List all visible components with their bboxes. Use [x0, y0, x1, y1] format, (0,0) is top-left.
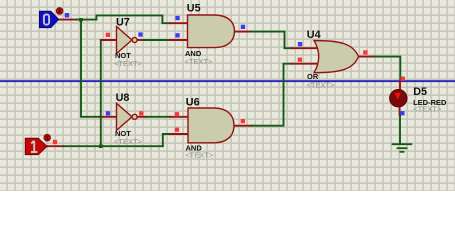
wire U4 out to LED: [375, 57, 401, 81]
U8 output pin stub: [137, 116, 146, 118]
U6 bottom input state marker (red): [175, 128, 179, 132]
D5 cathode state marker (blue): [400, 111, 404, 115]
svg-text:U5: U5: [187, 3, 201, 15]
U7 input pin stub: [101, 39, 117, 41]
U4 top input pin stub: [292, 47, 318, 49]
and gate U5: [188, 15, 235, 48]
wire LED to ground: [399, 115, 401, 145]
svg-text:<TEXT>: <TEXT>: [114, 59, 143, 68]
wire U6 out to U4 bottom input: [252, 64, 293, 126]
logic 1 pin state marker (red square): [53, 140, 57, 144]
not gate U8: [117, 103, 138, 130]
and gate U6: [188, 108, 234, 143]
wire A branch down to U8 input: [81, 20, 100, 117]
wire B horizontal: [63, 145, 163, 147]
wire U5 out to U4 top input: [252, 32, 293, 49]
svg-text:U8: U8: [116, 92, 130, 104]
logic 1 toggle red circle: [44, 134, 51, 141]
wire U7 out to U5 bottom input: [144, 39, 171, 41]
LED anode pin stub: [399, 81, 401, 91]
logic state input 0: [40, 11, 59, 27]
wire U8 out to U6 top input: [146, 116, 170, 118]
svg-text:<TEXT>: <TEXT>: [114, 137, 143, 146]
U8 input state marker (blue): [106, 111, 110, 115]
blue sheet border line: [0, 80, 455, 82]
node B junction: [99, 145, 103, 149]
U8 input pin stub: [100, 116, 117, 118]
not gate U7: [117, 27, 138, 54]
U7 output state marker (blue): [138, 32, 142, 36]
U7 input state marker (red): [106, 33, 110, 37]
U5 output state marker (blue): [241, 25, 245, 29]
U7 output pin stub: [137, 39, 144, 41]
wire B up to U6 bottom input: [163, 134, 171, 146]
svg-text:<TEXT>: <TEXT>: [185, 57, 214, 66]
U6 output state marker (red): [241, 119, 245, 123]
U5 top input pin stub: [170, 22, 188, 24]
U8 output state marker (red): [139, 111, 143, 115]
svg-text:<TEXT>: <TEXT>: [413, 105, 442, 114]
wire B branch up to U7 input: [100, 40, 102, 146]
U6 bottom input pin stub: [171, 133, 188, 135]
U4 bottom input state marker (red): [298, 58, 302, 62]
node A junction: [79, 18, 83, 22]
logic state input 1: [25, 138, 47, 154]
U4 output state marker (red): [363, 50, 367, 54]
D5 anode state marker (red): [401, 77, 405, 81]
logic 0 toggle red circle: [56, 8, 63, 15]
ground: [392, 144, 413, 152]
svg-text:D5: D5: [413, 86, 427, 98]
U6 top input pin stub: [170, 116, 188, 118]
svg-text:U6: U6: [186, 97, 200, 109]
U4 output pin stub: [358, 56, 375, 58]
U5 output pin stub: [234, 31, 252, 33]
svg-text:<TEXT>: <TEXT>: [185, 151, 214, 160]
svg-text:U7: U7: [116, 17, 130, 29]
LED D5: [390, 90, 407, 107]
U5 bottom input state marker (blue): [175, 33, 179, 37]
U5 bottom input pin stub: [170, 39, 188, 41]
U4 top input state marker (blue): [298, 42, 302, 46]
LED cathode pin stub: [399, 107, 401, 115]
U6 output pin stub: [234, 125, 252, 127]
or gate U4: [314, 41, 359, 73]
svg-text:U4: U4: [307, 29, 321, 41]
U4 bottom input pin stub: [292, 63, 318, 65]
wire B from logic 1 pin stub: [47, 145, 63, 147]
svg-text:<TEXT>: <TEXT>: [307, 81, 336, 90]
wire A horizontal to bend: [77, 19, 97, 21]
wire A up-right to U5 top input: [96, 15, 170, 23]
U5 top input state marker (blue): [175, 16, 179, 20]
U6 top input state marker (red): [175, 112, 179, 116]
wire A from logic 0 pin stub: [59, 19, 77, 21]
logic 0 pin state marker (blue square): [65, 13, 70, 18]
